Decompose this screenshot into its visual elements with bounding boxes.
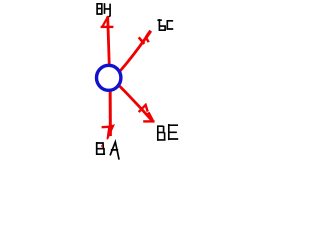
letter H of BH	[105, 4, 111, 16]
letter B of BE	[158, 126, 165, 140]
stray red dot inside B of BA	[101, 145, 103, 147]
vector BA arrow (down)	[102, 85, 114, 139]
wire: BE shaft	[119, 86, 152, 122]
label BH	[97, 4, 110, 16]
BH arrowhead left barb	[102, 16, 108, 26]
vector BC arrow (upper right)	[120, 31, 151, 72]
label BA	[97, 142, 119, 159]
wire: BC shaft	[120, 31, 151, 72]
label BC	[158, 20, 172, 30]
BA arrowhead tip wedge	[107, 125, 113, 139]
BA arrowhead cross bar	[102, 125, 114, 128]
vector BH arrow (up)	[101, 16, 114, 67]
BC tip thick segment	[146, 31, 150, 37]
BE thick tip segment	[148, 113, 152, 121]
BH arrowhead cross bar	[101, 26, 114, 28]
letter A of BA	[110, 142, 119, 159]
BC arrowhead crossing barb	[139, 37, 145, 44]
letter B of BA	[97, 143, 105, 154]
label BE	[158, 125, 178, 140]
letter B of BC	[158, 20, 165, 30]
vector BE arrow (lower right)	[119, 86, 155, 122]
letter C of BC	[167, 21, 172, 29]
BC arrowhead right barb	[147, 38, 149, 42]
letter B of BH	[97, 4, 102, 14]
letter E of BE	[169, 125, 178, 140]
BE arrowhead bottom bar	[143, 120, 154, 122]
BE arrowhead caret barb	[139, 105, 148, 112]
wire: BA shaft	[109, 85, 112, 136]
node O: pivot circle (white fill, blue ring)	[97, 65, 121, 90]
wire: BH shaft	[108, 16, 110, 67]
